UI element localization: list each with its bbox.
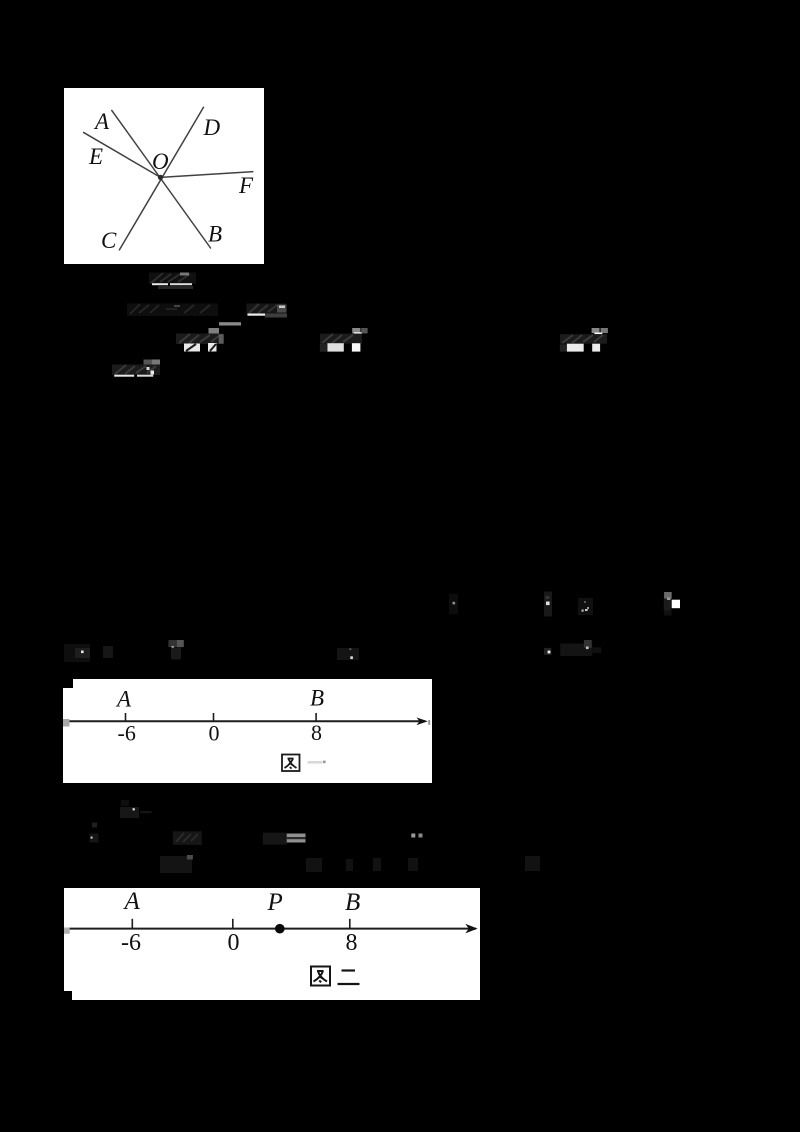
caption 一 (faint) [307,761,322,764]
fragment: fraction bar x544 y600 [544,592,552,617]
faint fragments layer [0,0,800,900]
tick 0 [232,919,234,928]
fragment: formula row y303 right [247,304,288,318]
fragment: two dots x416 y836 [411,834,422,838]
fragment: speckles x585 y607 [578,598,593,615]
caption 二 glyph [338,971,360,985]
fragment: item row y650 first [64,644,90,662]
node O blob [158,175,163,180]
figure box 1: lines through point O [64,88,264,264]
tick B [349,919,351,928]
fragment: angle term y335 left [176,328,224,352]
arrowhead [416,718,427,726]
fragment: item row y650 second [103,646,113,658]
svg-text:-6: -6 [121,930,141,956]
fragment: angle term y335 right [560,328,608,352]
fragment: mark x185 y838 [173,831,202,845]
fragment: angle term y335 mid [320,328,368,352]
black notch over box2 top-left corner [63,679,73,688]
number line [67,928,476,930]
fragment: tiny mark x94 y824 [92,823,97,828]
fragment: mark x127 y810 [120,800,152,818]
fragment: gray dash y322 [219,322,241,325]
fragment: group x560-600 y645 [560,640,601,656]
ray O-F [161,172,254,178]
fragment: mark x283 y838 w/ gray patch [263,833,306,845]
number line [65,720,425,722]
right edge gray sliver [428,720,430,725]
line D-O-C [119,107,204,251]
tick B [315,713,317,721]
fragment: row y860 marks [160,855,540,873]
tick A [131,919,133,928]
arrowhead [465,924,477,934]
svg-text:8: 8 [346,930,358,956]
fragment: gray box + white square x670 y600 [664,592,680,616]
fragment: item row y650 third w/ gray tops [168,640,183,660]
fragment: mark x93 y837 [90,834,99,843]
caption 图 glyph [282,755,300,772]
caption 图 glyph [311,967,330,986]
fragment: caption under box1 (inverted formula smudge) [149,273,196,290]
fragment: formula row y303 left [127,304,218,317]
figure box 3: number line 图二 [64,888,480,1000]
figure box 2: number line 图一 [63,679,433,783]
svg-text:0: 0 [228,930,240,956]
fragment: faint dot x453 y603 [449,594,458,614]
point P dot [275,924,285,934]
fragment: mark x345 y653 [337,648,359,660]
tick A [124,713,126,721]
left edge gray square [64,928,70,934]
fragment: mark x548 y650 [544,648,551,655]
black notch over box3 bottom-left corner [64,991,72,1000]
fragment: angle term y365 [112,360,160,377]
tick 0 [212,713,214,721]
ray O-E [83,132,160,177]
line A-O-B [111,110,210,249]
left edge gray square [63,719,70,727]
